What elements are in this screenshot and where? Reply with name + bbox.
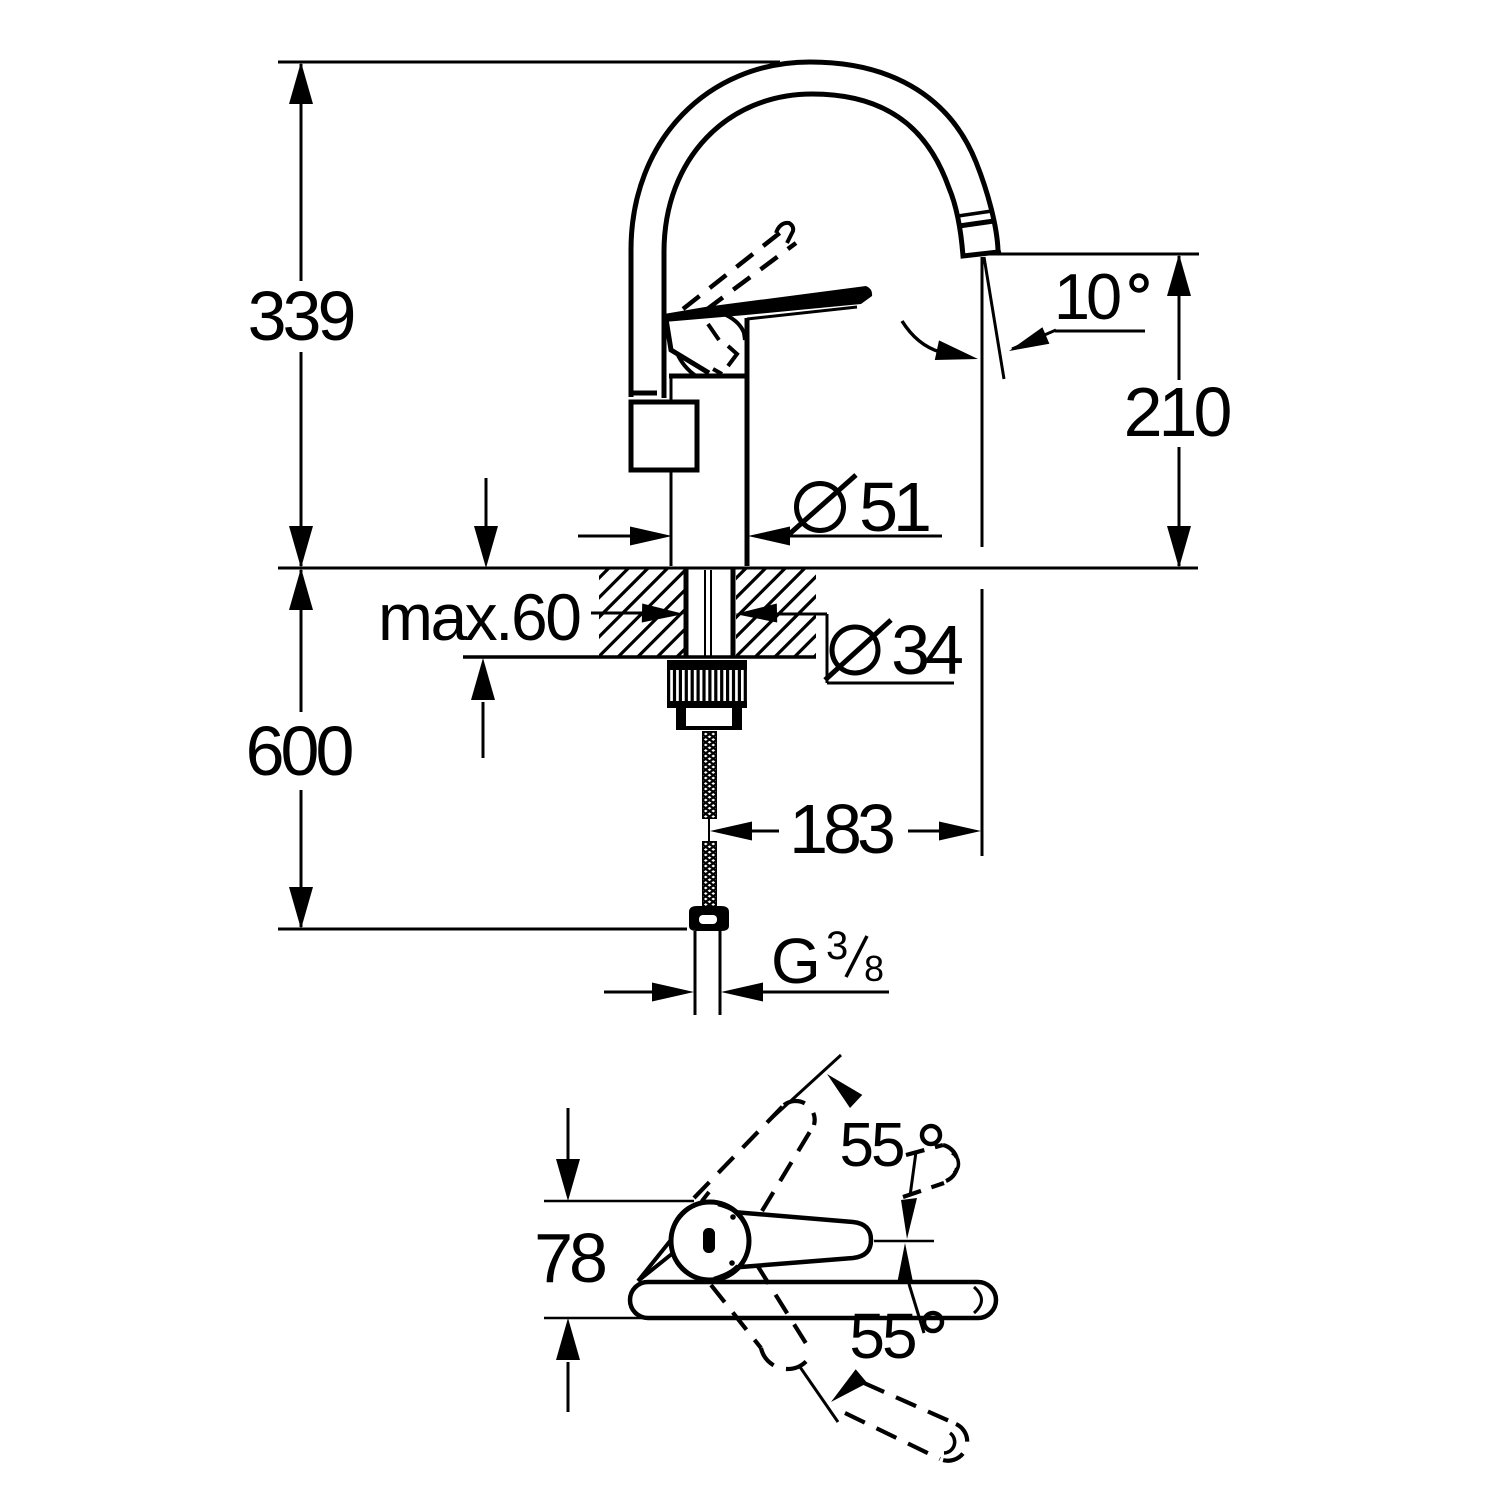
ball slot xyxy=(703,1228,715,1253)
wedge line stub over ball xyxy=(702,1192,709,1201)
dimension 183 right arrow xyxy=(908,830,940,833)
svg-text:210: 210 xyxy=(1124,373,1231,451)
svg-text:10: 10 xyxy=(1054,260,1120,333)
svg-text:339: 339 xyxy=(248,277,354,355)
raised dashed handle -55deg xyxy=(711,1265,812,1369)
dashed spout tip (lower right) xyxy=(845,1383,967,1461)
countertop deck line xyxy=(278,567,1198,570)
diameter 51 label xyxy=(797,484,844,531)
plan view: lower reference line xyxy=(544,1317,835,1320)
handle skirt right S-curve xyxy=(726,315,745,340)
dimension 339 bottom arrow xyxy=(289,526,313,568)
svg-text:51: 51 xyxy=(859,468,929,546)
diameter 34 leader with arrow xyxy=(735,604,777,623)
dimension 600 top arrow xyxy=(289,568,313,610)
dimension 339 vertical line xyxy=(300,64,303,281)
raised handle dashed outline (line B) xyxy=(706,243,796,310)
-55 extension ray xyxy=(800,1367,838,1422)
top reference line (spout top) xyxy=(278,61,780,64)
10 degree leader underline and arrow xyxy=(1055,330,1145,333)
cartridge dome arc xyxy=(677,353,696,376)
raised handle dashed outline (line A) xyxy=(683,228,786,309)
handle ball (plan) xyxy=(671,1202,749,1280)
swivel curved arrow xyxy=(902,321,940,352)
max.60 top extent arrow (above deck) xyxy=(485,478,488,532)
supply pipes inside shank xyxy=(704,570,706,658)
solid handle lever (plan) xyxy=(728,1212,871,1268)
spout aerator joint lines xyxy=(958,211,992,216)
ball parting dots xyxy=(730,1214,736,1220)
+55 angle arrow xyxy=(827,1074,862,1108)
handle pointer wedge lines xyxy=(638,1200,703,1281)
-55 angle arrow xyxy=(831,1369,867,1402)
svg-text:78: 78 xyxy=(534,1219,605,1297)
hidden skirt dashes xyxy=(708,324,719,340)
body right edge xyxy=(745,318,750,566)
svg-text:55: 55 xyxy=(849,1300,915,1372)
max.60 bottom extent arrow (below deck) xyxy=(471,658,495,700)
spout riser bottom tick xyxy=(633,391,657,396)
mounting nut (knurled) xyxy=(667,660,747,670)
max.60 leader line and arrow xyxy=(591,612,646,615)
lever axis line at tip xyxy=(874,1240,934,1243)
svg-text:600: 600 xyxy=(246,712,353,790)
svg-text:3: 3 xyxy=(826,924,848,968)
spout height reference line (210 top) xyxy=(983,253,1199,256)
hose centerline tick xyxy=(708,818,710,843)
spout axis extension line xyxy=(981,257,984,547)
handle lever blade (filled) xyxy=(664,286,872,322)
mounting shank below deck xyxy=(684,568,689,658)
dimension 210 bottom arrow xyxy=(1167,526,1191,568)
lower tip inner cap arc xyxy=(944,1433,955,1453)
dashed spout tip (upper right) xyxy=(903,1145,958,1197)
plan view: upper reference line xyxy=(544,1200,694,1203)
skirt top line xyxy=(664,312,706,318)
body left edge (lower) xyxy=(670,470,673,566)
body top line xyxy=(669,374,746,379)
dimension 183 left arrow xyxy=(710,822,752,841)
spout tilt line (10 deg) xyxy=(984,257,1004,379)
svg-text:183: 183 xyxy=(789,790,893,868)
hose end reference line (600 bottom) xyxy=(278,928,687,931)
dimension 600 vertical line xyxy=(300,570,303,712)
neck fillet top xyxy=(718,1204,740,1215)
raised handle tip hook (dashed) xyxy=(776,223,793,243)
diameter 34 label xyxy=(832,627,878,673)
deck underside line xyxy=(463,655,816,659)
dimension 339 top arrow xyxy=(289,62,313,104)
dimension 78 top arrow xyxy=(567,1108,570,1166)
plate right end inner arc xyxy=(974,1287,982,1313)
lever neck underside line xyxy=(747,307,857,319)
svg-text:34: 34 xyxy=(891,611,962,689)
dimension 210 vertical line xyxy=(1178,256,1181,380)
handle skirt left edge xyxy=(666,319,709,373)
diameter 51 dimension arrows xyxy=(578,535,634,538)
body inlet block xyxy=(631,402,697,470)
svg-text:8: 8 xyxy=(864,948,884,989)
hose end fitting xyxy=(689,906,729,931)
dimension 600 bottom arrow xyxy=(289,887,313,929)
svg-text:55: 55 xyxy=(840,1111,903,1180)
connection tube G3/8 xyxy=(694,931,697,1015)
faucet gooseneck spout outline xyxy=(631,62,999,398)
dimension 210 top arrow xyxy=(1167,254,1191,296)
raised dashed handle +55deg xyxy=(694,1101,815,1211)
neck fillet bottom xyxy=(714,1266,738,1279)
body left edge (upper) xyxy=(670,376,673,403)
svg-text:G: G xyxy=(771,925,821,997)
dimension 78 bottom arrow xyxy=(556,1318,580,1360)
G 3/8 dimension arrows xyxy=(604,991,656,994)
upper tip inner cap arc xyxy=(952,1153,958,1173)
svg-text:max.60: max.60 xyxy=(378,580,580,654)
+55 extension ray xyxy=(771,1055,841,1119)
escutcheon/spout plan (rounded plate) xyxy=(630,1282,996,1318)
upper 55 inner arrow xyxy=(910,1152,916,1196)
lower 55 inner arrow xyxy=(897,1243,913,1284)
